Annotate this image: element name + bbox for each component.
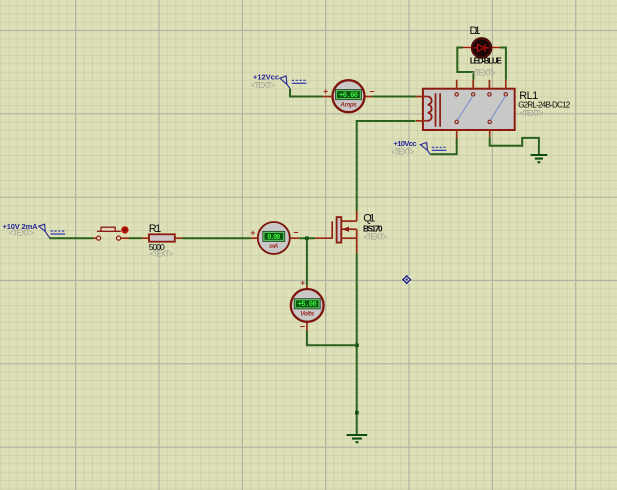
RL1 placeholder text: [520, 109, 544, 118]
relay RL1 body: [423, 89, 515, 130]
relay bottom pin stubs: [457, 130, 490, 139]
wire Q1 drain up to relay coil: [357, 121, 416, 211]
value LED-BLUE: [470, 57, 503, 66]
svg-text:<TEXT>: <TEXT>: [9, 229, 34, 238]
svg-text:Q1: Q1: [363, 212, 375, 224]
svg-text:D1: D1: [470, 25, 481, 37]
label RL1: [519, 90, 538, 102]
value 5000: [149, 242, 165, 252]
relay contact blades: [457, 96, 505, 120]
label Q1: [363, 212, 375, 224]
value G2RL-24B-DC12: [518, 100, 571, 109]
svg-text:+0.60: +0.60: [339, 92, 358, 100]
wire LED cathode to relay pin 4: [500, 48, 506, 80]
ammeter Amps (+0.60): [333, 80, 365, 112]
transistor Q1 BS170: [315, 211, 356, 253]
resistor R1: [142, 234, 183, 241]
ammeter Amps plus sign: [323, 86, 328, 96]
svg-text:+5.00: +5.00: [298, 301, 317, 309]
wire voltmeter to source line: [307, 331, 357, 346]
ammeter mA minus sign: [293, 228, 298, 238]
switch SW-SPST: [93, 226, 129, 240]
wire ammeter to junction: [299, 237, 315, 239]
svg-text:+: +: [250, 227, 255, 237]
svg-text:<TEXT>: <TEXT>: [251, 81, 275, 90]
wire switch to R1: [129, 237, 142, 239]
svg-text:<TEXT>: <TEXT>: [471, 68, 495, 77]
svg-text:<TEXT>: <TEXT>: [149, 250, 173, 259]
R1 placeholder text: [149, 250, 173, 259]
wire +12Vcc to ammeter Amps: [290, 89, 323, 97]
svg-text:R1: R1: [149, 223, 162, 235]
ammeter mA plus sign: [250, 227, 255, 237]
relay contact pins: [455, 93, 507, 124]
wire relay common 2 to ground: [490, 137, 539, 155]
svg-text:+: +: [323, 86, 328, 96]
svg-text:0.00: 0.00: [267, 234, 280, 242]
power terminal +10V 2mA: [3, 222, 66, 238]
value BS170: [363, 224, 383, 233]
ammeter mA pin stubs: [251, 237, 299, 239]
ammeter mA (0.00): [258, 222, 290, 254]
origin marker: [403, 276, 410, 283]
ground under Q1 source: [347, 435, 368, 442]
svg-text:−: −: [369, 86, 374, 96]
junction voltmeter return: [355, 344, 359, 348]
relay top pin stubs: [457, 80, 506, 89]
ammeter Amps pin stubs: [323, 96, 373, 98]
svg-text:Amps: Amps: [339, 101, 357, 108]
ground near relay: [531, 155, 548, 162]
voltmeter plus sign: [300, 277, 305, 287]
wire R1 to ammeter: [182, 237, 250, 239]
wire junction marker: [355, 411, 359, 415]
wire Q1 source down to ground: [356, 253, 358, 435]
wire LED anode to relay pin 2: [457, 48, 473, 80]
svg-text:<TEXT>: <TEXT>: [520, 109, 544, 118]
svg-text:mA: mA: [269, 243, 278, 250]
svg-text:<TEXT>: <TEXT>: [391, 147, 414, 156]
svg-text:<TEXT>: <TEXT>: [363, 233, 387, 242]
svg-text:Volts: Volts: [300, 311, 314, 318]
svg-text:LED-BLUE: LED-BLUE: [470, 57, 503, 66]
svg-text:−: −: [300, 322, 305, 332]
power terminal +10Vcc: [391, 139, 446, 156]
LED D1: [463, 38, 500, 57]
voltmeter (+5.00): [291, 289, 324, 322]
voltmeter pin stubs: [306, 285, 308, 330]
D1 placeholder text: [471, 68, 495, 77]
wire terminal to switch: [49, 237, 93, 239]
Q1 placeholder text: [363, 233, 387, 242]
svg-text:+: +: [300, 277, 305, 287]
wire ammeter Amps to relay coil: [373, 96, 416, 98]
svg-text:−: −: [293, 228, 298, 238]
relay coil: [416, 93, 441, 126]
label D1: [470, 25, 481, 37]
wire junction down to voltmeter: [306, 238, 308, 285]
wire +10Vcc to relay common 1: [430, 139, 457, 155]
junction node at gate branch: [305, 236, 309, 240]
label R1: [149, 223, 162, 235]
power terminal +12Vcc: [251, 73, 306, 91]
ammeter Amps minus sign: [369, 86, 374, 96]
voltmeter minus sign: [300, 322, 305, 332]
